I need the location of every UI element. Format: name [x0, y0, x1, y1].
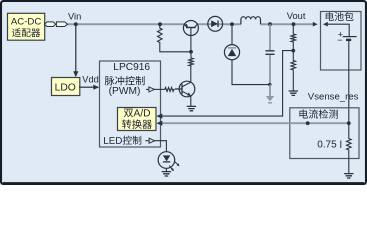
wire Q2 emitter to ground — [190, 96, 192, 106]
wire Vin to LDO — [75, 24, 77, 71]
resistor base R2 — [164, 87, 175, 91]
wire rail PNP to inductor — [198, 23, 242, 25]
block current detection — [290, 108, 359, 159]
node divider junction — [292, 22, 296, 26]
ground power arrow — [269, 85, 271, 96]
wire Q2 collector up — [190, 67, 192, 82]
resistor R5 divider bottom — [291, 60, 296, 72]
resistor R6 sense 0.75 — [348, 123, 350, 137]
wire Vdd LDO to LPC916 — [79, 86, 94, 88]
diode D1 series — [208, 16, 223, 31]
node switch junction — [230, 22, 234, 26]
connector J1 (plug symbol) — [45, 22, 68, 27]
wire Vin rail left segment — [68, 23, 185, 25]
resistor R3 collector chain — [189, 57, 194, 67]
node feedback tap — [291, 49, 295, 53]
node R1 rail junction — [158, 22, 162, 26]
wire LED port to LED — [155, 141, 167, 152]
transistor Q1 PNP pass — [183, 21, 198, 36]
LED D3 — [158, 152, 180, 171]
wire R1 bottom to junction — [160, 44, 191, 52]
wire cap branch upper — [269, 24, 271, 50]
wire Vsense to ADC — [162, 122, 349, 124]
node base drive junction — [189, 50, 193, 54]
outer border frame — [1, 1, 366, 184]
svg-text:−: − — [337, 35, 342, 45]
node sense resistor top — [347, 121, 351, 125]
node sense left — [306, 121, 310, 125]
arrow ADC input 2 — [156, 121, 162, 126]
diode D2 freewheel — [224, 45, 239, 60]
wire PNP base down — [190, 28, 192, 52]
wire junction to R3 — [190, 52, 192, 57]
wire rail to R1 — [159, 24, 161, 27]
wire to freewheel diode — [231, 24, 233, 45]
wire sense resistor to ground — [348, 151, 350, 174]
ground Q2 emitter — [187, 106, 196, 110]
wire rail inductor to battery arrow — [260, 23, 313, 25]
inductor L1 — [241, 17, 261, 25]
svg-text:Vsense_res: Vsense_res — [308, 91, 359, 102]
block LPC916 — [100, 61, 161, 147]
svg-text:0.75: 0.75 — [317, 140, 337, 151]
port LED output — [145, 140, 149, 142]
wire to R4 — [292, 24, 294, 33]
wire battery negative down — [348, 41, 350, 123]
wire D2 anode to gnd rail — [232, 60, 270, 85]
label PWM control — [105, 76, 145, 85]
svg-text:Vdd: Vdd — [82, 75, 99, 85]
svg-text:Vin: Vin — [68, 11, 81, 21]
svg-text:LDO: LDO — [55, 83, 76, 94]
wire battery top — [328, 24, 349, 36]
arrow Vout into battery — [313, 22, 318, 27]
svg-text:(PWM): (PWM) — [109, 86, 141, 97]
resistor R4 divider top — [291, 33, 296, 43]
transistor Q2 NPN — [175, 81, 195, 97]
port PWM output — [146, 88, 149, 90]
svg-text:LPC916: LPC916 — [113, 62, 150, 73]
ground divider — [289, 91, 298, 95]
resistor R1 bias — [158, 27, 163, 44]
wire PWM port to base resistor — [154, 88, 163, 90]
battery B1 — [337, 29, 356, 45]
block LDO — [52, 78, 80, 96]
label LED control — [104, 136, 141, 145]
ground sense resistor — [344, 174, 353, 178]
ground LED — [162, 172, 171, 176]
arrow battery internal — [323, 22, 328, 27]
wire LED to ground — [165, 168, 167, 171]
svg-text:Vout: Vout — [287, 11, 306, 21]
wire cap branch lower — [269, 55, 271, 85]
node Vout cap junction — [268, 22, 272, 26]
block dual ADC — [118, 108, 157, 131]
capacitor C1 output — [266, 51, 275, 55]
node Vin junction — [74, 22, 78, 26]
node gnd rail junction — [268, 83, 271, 86]
block battery pack — [321, 12, 362, 71]
arrow ADC input 1 — [156, 114, 162, 119]
wire feedback tap to ADC — [162, 51, 293, 117]
svg-text:AC-DC: AC-DC — [11, 16, 41, 27]
block AC-DC adapter — [8, 13, 45, 40]
